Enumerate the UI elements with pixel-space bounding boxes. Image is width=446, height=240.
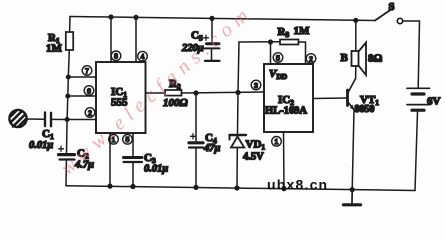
label C2 value 4.7u	[74, 148, 94, 171]
wire pin7	[68, 76, 96, 78]
pin 4 circle	[138, 51, 148, 61]
wire mic to C1	[27, 118, 44, 120]
resistor R2	[165, 90, 182, 96]
wire C1 to column	[52, 118, 67, 120]
wire collector to speaker	[355, 66, 357, 79]
transistor VT1 8050	[348, 79, 356, 111]
capacitor C1	[45, 113, 51, 127]
battery 6V	[407, 88, 430, 110]
label C3 value 0.01u	[144, 152, 168, 175]
node junction VD1 rail	[234, 185, 239, 190]
svg-text:3: 3	[254, 83, 258, 90]
capacitor C4 polarized	[189, 134, 203, 148]
capacitor C2 polarized	[59, 146, 75, 159]
label C1 value 0.01u	[29, 128, 54, 151]
svg-text:7: 7	[85, 68, 89, 75]
node junction pin6 column	[65, 94, 70, 99]
wire pin5 down	[132, 133, 134, 156]
pin 2 circle	[85, 108, 95, 118]
node junction VD1 column	[235, 90, 240, 95]
pin 2 circle IC2	[306, 54, 316, 64]
ground symbol	[344, 190, 361, 205]
svg-text:5: 5	[276, 55, 280, 62]
svg-text:2: 2	[309, 56, 313, 63]
svg-text:S: S	[389, 1, 395, 13]
wire R2 to pin3 of IC2	[182, 92, 265, 93]
node junction pin8 rail	[108, 14, 113, 19]
wire pin8	[110, 17, 112, 62]
node junction pin1 rail	[107, 184, 112, 189]
pin 5 circle	[123, 135, 133, 145]
label VT1 8050	[355, 94, 380, 115]
svg-text:6V: 6V	[427, 96, 441, 108]
svg-text:8050: 8050	[355, 104, 375, 115]
wire R3 feed	[239, 41, 280, 43]
wire pin4	[135, 17, 137, 62]
node junction speaker rail	[353, 18, 358, 23]
pin 7 circle	[82, 66, 92, 76]
wire C5 bottom stub	[211, 49, 213, 59]
svg-text:4: 4	[141, 54, 145, 61]
wire speaker top	[355, 20, 357, 51]
node junction pin7 column	[66, 75, 71, 80]
wire zener column	[237, 93, 240, 134]
wire pin2	[67, 119, 96, 121]
capacitor C3	[124, 158, 143, 163]
svg-text:6: 6	[87, 88, 91, 95]
node junction C3 rail	[130, 184, 135, 189]
C5 end bar	[205, 60, 220, 62]
svg-text:100Ω: 100Ω	[163, 97, 189, 109]
wire emitter down	[352, 110, 354, 190]
pin 5 circle IC2	[273, 53, 283, 63]
wire C2 to bottom rail	[65, 161, 67, 186]
capacitor C5 polarized	[204, 35, 220, 48]
node junction R3 left	[268, 39, 273, 44]
svg-text:1M: 1M	[46, 43, 63, 55]
label R2 value 100ohm	[163, 78, 189, 109]
label R3 value 1M	[278, 25, 311, 39]
wire IC2 pin1 down	[283, 132, 286, 189]
wire bottom ground rail	[66, 186, 415, 191]
label IC1 555	[111, 86, 128, 109]
IC IC2 HL-169A	[264, 64, 313, 132]
wire R3 right down to pin2 of IC2	[299, 42, 306, 64]
node junction C4 tap	[193, 90, 198, 95]
wire VD1 column upper	[238, 42, 239, 93]
label VD1 value 4.5V	[243, 139, 265, 163]
wire switch to battery corner	[403, 21, 420, 88]
pin 1 circle IC2	[272, 137, 282, 147]
switch S	[375, 9, 403, 24]
svg-text:ubx8.cn: ubx8.cn	[267, 177, 328, 193]
pin 1 circle	[109, 135, 119, 145]
microphone input	[9, 110, 26, 127]
wire R3 left down to pin5 of IC2	[270, 42, 272, 64]
wire top supply rail	[70, 17, 375, 21]
svg-text:1M: 1M	[294, 25, 311, 37]
node junction emitter rail	[350, 187, 355, 192]
svg-text:0.01μ: 0.01μ	[29, 140, 53, 151]
pin 3 circle IC2	[251, 80, 261, 90]
svg-text:47μ: 47μ	[203, 143, 221, 154]
wire pin6	[68, 95, 96, 97]
wire pin1 down	[109, 133, 111, 186]
svg-text:B: B	[341, 52, 349, 64]
svg-text:HL-169A: HL-169A	[265, 106, 307, 117]
node junction C4 rail	[193, 185, 198, 190]
label C4 value 47u	[203, 132, 221, 154]
svg-text:5: 5	[126, 137, 130, 144]
node junction IC2 pin1 rail	[281, 186, 286, 191]
resistor R1	[66, 32, 73, 50]
diode VD1 zener	[230, 135, 247, 148]
node junction C5 rail	[209, 16, 214, 21]
label C5 value 220u	[181, 30, 204, 55]
speaker B	[352, 43, 367, 76]
wire pin3 out	[146, 92, 166, 94]
IC IC1 555 timer	[96, 62, 146, 133]
pin 8 circle	[111, 51, 121, 61]
svg-text:4.5V: 4.5V	[243, 152, 264, 163]
wire C5 top	[211, 18, 213, 42]
svg-text:8Ω: 8Ω	[368, 53, 383, 65]
node junction C1 column	[65, 117, 70, 122]
wire left feedback column	[67, 50, 70, 153]
wire C4 column	[195, 93, 197, 141]
wire battery to bottom rail	[415, 112, 418, 191]
label R1 value 1M	[46, 32, 63, 55]
svg-text:1: 1	[275, 139, 279, 146]
resistor R3	[280, 40, 299, 45]
wire R1 top from rail	[69, 17, 71, 33]
pin 6 circle	[84, 86, 94, 96]
wire C3 to rail	[132, 163, 134, 187]
svg-text:8: 8	[114, 54, 118, 61]
node junction pin4 rail	[133, 15, 138, 20]
svg-text:2: 2	[88, 110, 92, 117]
wire VD1 to rail	[236, 148, 238, 189]
wire C4 to rail	[195, 149, 197, 188]
svg-text:0.01μ: 0.01μ	[144, 164, 168, 175]
wire IC2 out to base	[313, 97, 347, 100]
